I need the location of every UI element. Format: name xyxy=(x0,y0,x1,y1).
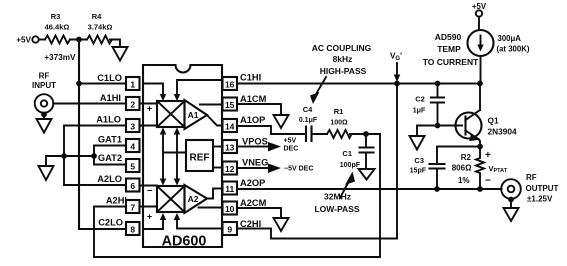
svg-text:3.74kΩ: 3.74kΩ xyxy=(88,23,113,32)
wire A2CM inside xyxy=(199,207,223,209)
current source U2 AD590 xyxy=(468,30,494,56)
svg-text:C1HI: C1HI xyxy=(240,73,261,83)
svg-text:2N3904: 2N3904 xyxy=(488,127,517,137)
svg-text:INPUT: INPUT xyxy=(32,81,56,90)
label +5V DEC xyxy=(284,138,299,153)
wire A2OP output line xyxy=(237,188,502,190)
svg-text:300μA: 300μA xyxy=(498,34,522,43)
node A1LO/A2LO tie xyxy=(61,153,67,159)
svg-text:TEMP: TEMP xyxy=(437,44,461,54)
svg-text:1: 1 xyxy=(130,80,135,90)
svg-text:100pF: 100pF xyxy=(340,162,361,169)
svg-text:5: 5 xyxy=(130,162,135,172)
node R2 bottom xyxy=(477,186,483,192)
svg-text:A1HI: A1HI xyxy=(100,93,121,103)
svg-text:+5V: +5V xyxy=(16,36,31,45)
svg-text:0.1μF: 0.1μF xyxy=(299,117,318,124)
node C2 top xyxy=(435,81,441,87)
ground (gates) xyxy=(39,166,54,180)
pin 13 xyxy=(223,140,238,153)
svg-text:OUTPUT: OUTPUT xyxy=(526,184,559,193)
wire REF to VNEG pin xyxy=(213,167,223,169)
wire xyxy=(312,133,328,135)
svg-text:Q1: Q1 xyxy=(488,116,499,126)
svg-text:VNEG: VNEG xyxy=(242,158,268,168)
node C3 bottom xyxy=(434,186,440,192)
svg-text:HIGH-PASS: HIGH-PASS xyxy=(320,66,367,76)
svg-text:32MHz: 32MHz xyxy=(324,192,351,202)
svg-text:6: 6 xyxy=(130,181,135,191)
wire R1 to node xyxy=(350,133,380,135)
wire GAT1 xyxy=(94,146,126,157)
capacitor C4 xyxy=(299,105,318,141)
wire gate ground run xyxy=(46,156,94,166)
ground (A1CM) xyxy=(274,115,289,128)
ground (C1) xyxy=(359,169,375,180)
RF INPUT terminal xyxy=(32,72,56,113)
wire C2LO gain arrow xyxy=(143,213,166,229)
wire REF feed xyxy=(163,135,186,178)
wire A1HI stub xyxy=(140,103,158,105)
pin 7 xyxy=(126,200,140,213)
resistor R3 xyxy=(45,12,70,44)
node +373mV junction xyxy=(76,37,82,43)
pin 10 xyxy=(223,202,238,215)
attenuator A1 X-box xyxy=(157,101,185,127)
wire C1LO gain arrow xyxy=(143,84,166,102)
svg-text:REF: REF xyxy=(190,153,210,164)
svg-text:DEC: DEC xyxy=(284,146,299,153)
wire A2OP inside xyxy=(207,189,222,199)
svg-text:806Ω: 806Ω xyxy=(452,164,472,173)
pin 8 xyxy=(126,222,140,235)
svg-text:+373mV: +373mV xyxy=(44,53,76,62)
wire A1OP to C4 xyxy=(237,126,306,134)
svg-text:−: − xyxy=(147,186,152,196)
pin 16 xyxy=(223,77,238,90)
VNEG arrow xyxy=(268,164,281,174)
REF up arrow 1 xyxy=(160,128,167,135)
node below RF terminal xyxy=(41,112,47,118)
node C2 bottom / base xyxy=(435,123,441,129)
wire xyxy=(478,17,480,30)
+5V terminal right xyxy=(472,2,487,17)
wire C1LO xyxy=(79,83,126,85)
svg-text:AD590: AD590 xyxy=(435,32,462,42)
wire xyxy=(70,39,87,41)
svg-text:C2LO: C2LO xyxy=(98,218,123,228)
capacitor C2 xyxy=(413,84,444,126)
svg-text:C1LO: C1LO xyxy=(97,73,122,83)
svg-text:+5V: +5V xyxy=(284,138,297,145)
wire VPOS xyxy=(237,146,270,148)
node Q1 emitter xyxy=(477,144,483,150)
ground (RF output) xyxy=(504,199,519,221)
RF OUTPUT terminal xyxy=(501,173,558,204)
IC U1 AD600 body xyxy=(143,65,222,250)
svg-text:3: 3 xyxy=(130,122,135,132)
attenuator A2 X-box xyxy=(157,186,185,212)
svg-text:7: 7 xyxy=(130,203,135,213)
capacitor C3 xyxy=(410,156,445,189)
svg-text:GAT1: GAT1 xyxy=(98,135,122,145)
ground (A2CM) xyxy=(274,218,289,231)
resistor R1 xyxy=(327,107,352,138)
svg-text:+: + xyxy=(147,212,152,222)
op-amp A2 triangle xyxy=(185,185,208,213)
wire AD590 to node xyxy=(480,56,482,84)
wire REF to VPOS pin xyxy=(213,146,223,148)
svg-text:A2CM: A2CM xyxy=(240,198,267,208)
wire A1CM inside xyxy=(200,104,222,106)
wire A1CM xyxy=(237,104,281,115)
svg-text:A2LO: A2LO xyxy=(97,174,122,184)
svg-text:10: 10 xyxy=(225,204,235,214)
svg-text:12: 12 xyxy=(225,164,235,174)
svg-text:A1LO: A1LO xyxy=(96,115,121,125)
svg-text:11: 11 xyxy=(225,184,234,194)
wire GAT2 xyxy=(94,156,126,165)
pin 2 xyxy=(126,97,140,110)
svg-text:AD600: AD600 xyxy=(162,234,207,250)
pin 9 xyxy=(223,222,238,235)
node C1LO tap xyxy=(76,81,82,87)
svg-text:−5V DEC: −5V DEC xyxy=(284,166,313,173)
wire Q1 base xyxy=(417,126,462,137)
pin 12 xyxy=(223,162,238,175)
annotation arrow to C4 xyxy=(310,77,326,104)
reference box REF xyxy=(186,140,213,171)
wire xyxy=(39,39,45,41)
VPOS arrow xyxy=(268,142,281,152)
wire xyxy=(110,40,120,48)
svg-text:RF: RF xyxy=(39,72,50,81)
wire VNEG xyxy=(237,167,270,169)
svg-text:C2: C2 xyxy=(415,95,425,104)
svg-text:100Ω: 100Ω xyxy=(330,120,348,127)
wire A1LO stub xyxy=(140,125,158,127)
wire C1HI to AD590 xyxy=(237,83,480,85)
svg-text:R4: R4 xyxy=(92,12,102,21)
pin 5 xyxy=(126,159,140,172)
wire A2HI stub xyxy=(140,206,158,208)
svg-text:16: 16 xyxy=(225,80,235,90)
node output ground tap xyxy=(508,197,514,203)
node AD590/C1HI xyxy=(477,81,483,87)
wire +373mV rail down to C2LO xyxy=(79,40,126,230)
wire A2HI feedback xyxy=(94,134,380,257)
svg-text:LOW-PASS: LOW-PASS xyxy=(314,204,359,214)
wire A1OP inside xyxy=(207,115,222,126)
label AD590 TEMP TO CURRENT xyxy=(423,32,479,67)
svg-text:4: 4 xyxy=(130,142,135,152)
wire A2LO stub xyxy=(140,185,158,187)
svg-text:1μF: 1μF xyxy=(413,108,426,115)
wire C2HI gain arrow xyxy=(174,213,222,229)
wire C1HI gain arrow xyxy=(174,80,222,101)
label 32MHz LOW-PASS xyxy=(314,192,359,215)
pin 11 xyxy=(223,182,238,195)
label VPTAT xyxy=(485,150,508,187)
pin 4 xyxy=(126,139,140,152)
pin 3 xyxy=(126,119,140,132)
annotation arrow to C1 xyxy=(340,172,355,199)
svg-text:C3: C3 xyxy=(414,156,424,165)
svg-text:1%: 1% xyxy=(458,176,470,185)
ground (RF input) xyxy=(37,113,52,133)
resistor R4 xyxy=(87,12,112,44)
wire emitter to C3 xyxy=(437,147,480,164)
svg-text:8kHz: 8kHz xyxy=(333,54,353,64)
wire A1LO / A2LO xyxy=(64,126,126,186)
REF down arrow 2 xyxy=(174,179,181,186)
svg-text:A2: A2 xyxy=(188,194,199,204)
wire C2HI return xyxy=(237,84,397,239)
svg-text:R2: R2 xyxy=(461,153,472,162)
wire A1HI xyxy=(53,103,126,105)
resistor R2 xyxy=(452,147,484,190)
svg-text:±1.25V: ±1.25V xyxy=(527,195,553,204)
svg-text:C4: C4 xyxy=(303,105,313,114)
+5V terminal top-left xyxy=(16,36,38,45)
svg-text:8: 8 xyxy=(130,225,135,235)
svg-text:AC COUPLING: AC COUPLING xyxy=(312,43,372,53)
svg-text:2: 2 xyxy=(130,100,135,110)
svg-text:A2HI: A2HI xyxy=(106,196,127,206)
svg-text:13: 13 xyxy=(225,143,235,153)
op-amp A1 triangle xyxy=(185,100,208,129)
svg-text:14: 14 xyxy=(225,122,235,132)
svg-text:GAT2: GAT2 xyxy=(98,153,122,163)
ground (R4) xyxy=(113,47,128,61)
svg-text:9: 9 xyxy=(227,225,232,235)
pin 14 xyxy=(223,119,238,132)
svg-text:VPOS: VPOS xyxy=(242,137,268,147)
annotation arrow VG xyxy=(394,63,401,82)
REF up arrow 2 xyxy=(174,128,181,135)
svg-text:A1CM: A1CM xyxy=(240,94,267,104)
svg-text:R3: R3 xyxy=(51,12,61,21)
svg-text:15: 15 xyxy=(225,100,235,110)
svg-text:C2HI: C2HI xyxy=(240,219,261,229)
svg-text:A1: A1 xyxy=(188,110,199,120)
svg-text:TO CURRENT: TO CURRENT xyxy=(423,57,479,67)
svg-text:(at 300K): (at 300K) xyxy=(497,45,530,54)
ground (Q1 base) xyxy=(410,136,425,150)
svg-text:+: + xyxy=(147,104,152,114)
wire A2CM xyxy=(237,208,281,218)
pin 1 xyxy=(126,77,140,90)
pin 6 xyxy=(126,179,140,192)
svg-text:C1: C1 xyxy=(342,149,352,158)
capacitor C1 xyxy=(340,134,374,169)
svg-text:R1: R1 xyxy=(334,107,344,116)
svg-text:46.4kΩ: 46.4kΩ xyxy=(45,23,70,32)
svg-text:A1OP: A1OP xyxy=(240,115,265,125)
REF down arrow 1 xyxy=(160,179,167,186)
svg-text:−: − xyxy=(485,176,491,187)
node C1 tap xyxy=(363,131,369,137)
svg-text:15pF: 15pF xyxy=(410,168,427,175)
svg-text:+: + xyxy=(485,150,491,161)
svg-text:RF: RF xyxy=(526,173,537,182)
transistor Q1 xyxy=(456,84,517,147)
pin 15 xyxy=(223,98,238,111)
node VG tie xyxy=(394,81,400,87)
label 300uA xyxy=(497,34,530,54)
svg-text:A2OP: A2OP xyxy=(240,178,265,188)
label AC COUPLING xyxy=(312,43,372,76)
node GAT junction xyxy=(91,153,97,159)
